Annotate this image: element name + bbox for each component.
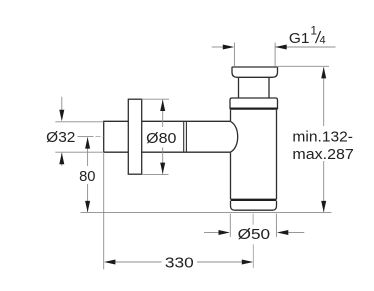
trap centreline below body <box>252 214 254 268</box>
dimension min/max: arrowheads <box>321 67 326 78</box>
dimension Ø50: extension lines <box>230 214 276 237</box>
collar <box>230 98 278 109</box>
svg-text:min.132-: min.132- <box>292 129 353 146</box>
svg-text:1: 1 <box>310 23 317 37</box>
neck <box>239 77 270 98</box>
dimension Ø80: vertical line <box>162 100 164 174</box>
svg-text:330: 330 <box>165 254 194 271</box>
pipe end bullet inside trap <box>231 121 238 152</box>
pipe joint break lines <box>184 121 187 152</box>
dimension 80: arrowheads <box>85 137 90 148</box>
svg-text:G1: G1 <box>289 30 310 47</box>
dimension Ø32: arrowheads <box>59 110 64 121</box>
dimension 330: left extension line <box>103 152 105 269</box>
svg-text:Ø32: Ø32 <box>46 129 75 146</box>
Ø32 leader to centreline <box>78 136 94 138</box>
dimension 330: arrowheads <box>104 260 115 265</box>
dimension G1 1/4: arrowheads <box>223 45 234 50</box>
dimension Ø32: arrow lines <box>61 97 63 166</box>
svg-text:Ø50: Ø50 <box>238 226 270 243</box>
dimension 330: dim lines <box>116 261 243 263</box>
long reference line (trap bottom level) <box>81 212 332 214</box>
trap body sides <box>231 110 277 200</box>
dimension G1 1/4: extension lines <box>234 43 275 67</box>
pipe centreline dashes <box>96 136 104 138</box>
collar bottom seam <box>230 107 278 109</box>
dimension min/max: vertical line <box>323 67 325 212</box>
dimension Ø80: arrowheads <box>160 100 165 111</box>
dimension Ø80: extension lines <box>142 99 169 174</box>
dimension min/max: top extension line <box>278 65 329 67</box>
svg-text:4: 4 <box>320 35 326 47</box>
inlet pipe (horizontal Ø32 pipe) <box>104 121 231 152</box>
svg-text:80: 80 <box>79 168 95 185</box>
dimension Ø50: arrowheads <box>219 230 230 235</box>
dimension Ø50: arrow lines <box>204 232 304 234</box>
bottom cap <box>231 201 277 210</box>
body seam thick line <box>231 199 277 201</box>
svg-text:Ø80: Ø80 <box>146 130 176 147</box>
svg-text:max.287: max.287 <box>292 146 353 163</box>
dimension G1 1/4: arrow lines <box>212 46 336 48</box>
top nut G1 1/4 <box>232 67 278 77</box>
wall flange Ø80 <box>128 99 141 174</box>
label G1 1/4 <box>289 23 326 47</box>
dimension Ø32: extension lines <box>55 122 103 152</box>
dimension 80: vertical line <box>87 137 89 212</box>
